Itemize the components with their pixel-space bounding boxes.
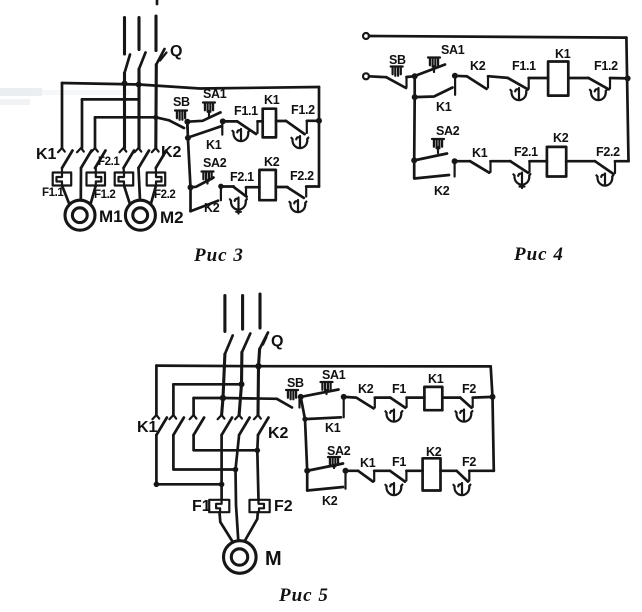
wire phase L1 top (Fig3) [123, 18, 126, 55]
wire phase L3 top (Fig3) [154, 16, 157, 51]
wire F1.1 to motor M1 (Fig3) [62, 186, 70, 205]
switch Q blade pole2 (Fig5) [242, 334, 250, 353]
wire K2 to F1.1 (Fig4) [488, 76, 508, 78]
anchor F1 rung2 (Fig5) [385, 483, 402, 495]
wire F2.2 to rail (Fig3) [306, 185, 319, 188]
terminal bottom (Fig4) [363, 73, 369, 79]
wire phase L1 top (Fig5) [223, 296, 226, 332]
motor M2 (Fig3) [125, 200, 155, 230]
svg-text:F2.2: F2.2 [154, 189, 175, 201]
wire right rail (Fig3) [318, 87, 321, 187]
node bus3-L1 (Fig5) [220, 395, 226, 401]
wire right rail (Fig5) [491, 366, 494, 470]
wire node1-node2 (Fig3) [186, 122, 189, 138]
wire coil to F1.2 (Fig3) [276, 120, 286, 123]
wire F2 to rail (Fig5) [473, 396, 493, 399]
NC contact K2 (Fig4) [455, 74, 467, 77]
anchor F1 rung1 (Fig5) [385, 410, 402, 422]
node bus2-L2 (Fig5) [239, 381, 245, 387]
wire bus 3 control feed (Fig5) [194, 397, 277, 400]
coil K2 (Fig4) [547, 147, 566, 177]
svg-text:SB: SB [389, 53, 406, 67]
switch Q blade pole3 (Fig5) [260, 333, 268, 350]
contactor contact K1.1 (Fig3) [58, 148, 73, 168]
thermal element F2.1 (Fig3) [122, 168, 125, 173]
svg-text:SA2: SA2 [436, 124, 460, 138]
node 5 (Fig3) [218, 184, 223, 189]
wire SB to node1 (Fig4) [407, 75, 415, 79]
NC contact K1 (Fig4) [455, 160, 470, 163]
wire node1 down (Fig4) [413, 76, 416, 97]
svg-text:SA1: SA1 [322, 368, 346, 382]
svg-text:SA2: SA2 [327, 444, 351, 458]
svg-text:F1.1: F1.1 [234, 104, 258, 118]
contactor contact K2.3 (Fig5) [254, 415, 269, 435]
svg-text:SA1: SA1 [441, 43, 465, 57]
svg-text:K1: K1 [472, 146, 488, 160]
wire K2.3 out (Fig5) [257, 435, 258, 500]
svg-text:K2: K2 [358, 382, 374, 396]
node bus-L1 (Fig3) [122, 81, 128, 87]
svg-text:SB: SB [287, 376, 304, 390]
wire F1.2 to motor M1 (Fig3) [91, 186, 96, 205]
node bus1-L3 (Fig5) [255, 363, 261, 369]
thermal contact F1 rung2 (Fig5) [390, 471, 405, 482]
wire coil to F1.2 (Fig4) [568, 77, 588, 80]
svg-text:Рис 4: Рис 4 [513, 244, 564, 265]
wire F2.2 to rail (Fig4) [615, 160, 629, 163]
svg-text:K1: K1 [436, 100, 452, 114]
wire phase L2 top (Fig5) [241, 296, 244, 330]
wire node1 down (Fig5) [305, 419, 307, 490]
svg-text:F2.1: F2.1 [98, 156, 120, 168]
contactor contact K1.2 (Fig3) [77, 148, 92, 168]
wire top rail (Fig4) [369, 36, 626, 38]
wire bus 2 (Fig3) [82, 98, 139, 101]
pushbutton SB (Fig5) [286, 390, 298, 399]
wire F1 to motor (Fig5) [220, 512, 233, 542]
svg-text:K2: K2 [553, 131, 569, 145]
svg-text:F1.1: F1.1 [512, 59, 536, 73]
switch Q handle tick (Fig3) [160, 53, 167, 61]
svg-text:K1: K1 [264, 93, 280, 107]
node 1 (Fig5) [298, 394, 304, 400]
wire K1 to F1 (Fig5) [374, 469, 390, 472]
node 2 (Fig5) [341, 394, 347, 400]
anchor F1.1 (Fig3) [232, 129, 249, 141]
wire left drop 2 (Fig5) [172, 384, 175, 415]
wire coil to F2 (Fig5) [442, 396, 460, 399]
svg-text:K2: K2 [322, 494, 338, 508]
node 4 (Fig3) [188, 184, 194, 190]
thermal contact F2.2 (Fig4) [595, 161, 614, 174]
wire left drop 1 (Fig3) [61, 83, 64, 148]
wire bus 2 (Fig5) [173, 383, 241, 386]
svg-text:F1.2: F1.2 [94, 189, 115, 201]
NC contact K2 (Fig5) [344, 397, 374, 409]
thermal contact F1.2 (Fig4) [589, 78, 609, 89]
svg-text:K1: K1 [36, 146, 57, 163]
node 1 (Fig4) [412, 73, 418, 79]
node rail rung1 (Fig5) [490, 394, 496, 400]
switch SA1 (Fig5) [321, 382, 333, 391]
svg-text:Q: Q [170, 43, 182, 60]
svg-text:F1.2: F1.2 [291, 103, 315, 117]
wire coil to F2 rung2 (Fig5) [441, 469, 457, 472]
thermal contact F1.1 control (Fig3) [223, 120, 237, 123]
wire right rail (Fig4) [626, 38, 628, 162]
coil K1 (Fig4) [548, 62, 568, 96]
contactor contact K2.3 (Fig3) [152, 148, 167, 168]
anchor F1.1 (Fig4) [510, 88, 527, 100]
wire phase L2 lower (Fig5) [239, 352, 242, 415]
svg-text:K2: K2 [264, 155, 280, 169]
node 4 (Fig5) [343, 468, 349, 474]
thermal element F2 (Fig5) [250, 500, 270, 512]
switch Q handle tick (Fig5) [263, 337, 267, 345]
thermal element F1 (Fig5) [209, 500, 229, 512]
wire K1.3 out (Fig5) [194, 435, 258, 450]
node bus-L2 (Fig3) [136, 82, 142, 88]
anchor F2.2 (Fig4) [596, 174, 613, 186]
svg-text:M: M [265, 548, 282, 570]
switch SA2 (Fig5) [328, 457, 340, 466]
aux contact K1 (Fig3) [190, 126, 221, 137]
aux contact K2 (Fig4) [414, 160, 449, 178]
coil K1 (Fig5) [424, 387, 442, 410]
node 3 (Fig3) [220, 118, 226, 124]
aux contact K2 (Fig5) [307, 487, 343, 491]
svg-text:F2: F2 [274, 498, 293, 515]
wire F1.1 to coil (Fig4) [529, 77, 548, 80]
anchor F2.1 with reset (Fig4) [513, 173, 530, 185]
wire phase L2 top (Fig3) [137, 18, 140, 50]
anchor F2.2 (Fig3) [289, 200, 306, 212]
node out3 (Fig5) [254, 448, 260, 454]
wire coil to F2.2 (Fig4) [566, 160, 595, 163]
wire F1 to coil (Fig5) [407, 396, 425, 399]
switch SA1 (Fig4) [428, 58, 440, 67]
wire bus 3 control feed (Fig3) [95, 117, 169, 120]
wire F1 to coil K2 (Fig5) [406, 469, 422, 472]
thermal contact F1.1 (Fig4) [508, 78, 528, 89]
anchor F2.1 with reset (Fig3) [230, 198, 247, 210]
wire F2 to rail rung2 (Fig5) [469, 469, 494, 472]
svg-text:SB: SB [173, 95, 190, 109]
coil K1 (Fig3) [263, 109, 276, 138]
thermal element F1.1 (Fig3) [61, 168, 63, 173]
svg-text:K2: K2 [426, 445, 442, 459]
anchor F1.2 (Fig3) [291, 136, 308, 148]
switch Q blade pole1 (Fig3) [125, 55, 131, 74]
switch SA2 (Fig4) [432, 139, 444, 148]
thermal contact F2 rung2 (Fig5) [457, 471, 468, 482]
node 3 (Fig5) [304, 468, 310, 474]
svg-text:Q: Q [271, 333, 283, 350]
wire to coil K2 (Fig3) [246, 186, 259, 189]
switch Q blade pole1 (Fig5) [225, 336, 233, 355]
svg-text:F2.2: F2.2 [290, 169, 314, 183]
contactor contact K1.3 (Fig5) [190, 415, 205, 435]
svg-text:M2: M2 [160, 208, 184, 227]
node out1b (Fig5) [219, 482, 225, 488]
svg-text:F1: F1 [192, 498, 211, 515]
node 4 (Fig4) [411, 157, 417, 163]
wire mid phase to M2 (Fig3) [139, 168, 141, 200]
wire to coil K1 (Fig3) [258, 120, 263, 123]
wire K2.2 out (Fig5) [236, 435, 240, 541]
wire bus phase top (Fig3) [62, 83, 319, 89]
svg-text:F2: F2 [462, 382, 476, 396]
wire K1.2 out (Fig5) [173, 435, 235, 470]
scan artifact streaks (decorative) [0, 88, 42, 96]
svg-text:F2.1: F2.1 [230, 170, 254, 184]
svg-text:M1: M1 [99, 207, 123, 226]
thermal contact F2 (Fig5) [460, 398, 471, 408]
svg-text:SA2: SA2 [203, 156, 227, 170]
NC contact K1 (Fig5) [346, 469, 359, 472]
wire node3 down (Fig4) [413, 97, 416, 160]
aux contact K1 (Fig4) [415, 88, 453, 98]
svg-text:K2: K2 [268, 425, 289, 442]
thermal element F1.2 (Fig3) [95, 168, 97, 173]
wire mid phase to M1 (Fig3) [79, 168, 82, 200]
svg-text:Рис 3: Рис 3 [193, 245, 244, 266]
node 3 (Fig4) [412, 94, 418, 100]
svg-text:K1: K1 [555, 47, 571, 61]
thermal contact F2.1 (Fig4) [510, 161, 528, 173]
wire phase L1 lower (Fig5) [222, 354, 225, 415]
anchor F1.2 (Fig4) [590, 88, 607, 100]
svg-text:Рис 5: Рис 5 [278, 585, 329, 606]
wire K2 to F1 (Fig5) [375, 396, 391, 399]
thermal contact F1.2 control (Fig3) [286, 121, 305, 134]
thermal element F2.2 (Fig3) [155, 168, 157, 173]
svg-text:SA1: SA1 [203, 87, 227, 101]
node rail rung1 (Fig3) [316, 118, 322, 124]
node 5 (Fig4) [452, 158, 458, 164]
wire phase L3 lower (Fig5) [258, 349, 260, 415]
thermal contact F1 (Fig5) [390, 398, 405, 408]
svg-text:K2: K2 [161, 144, 182, 161]
node K1-aux branch (Fig5) [302, 417, 307, 422]
wire phase L3 top (Fig5) [258, 294, 261, 328]
motor M1 (Fig3) [65, 200, 95, 230]
wire node2 down (Fig3) [188, 138, 191, 211]
node out2 (Fig5) [233, 467, 239, 473]
coil K2 (Fig5) [423, 458, 441, 490]
motor M (Fig5) [224, 541, 257, 574]
thermal contact F2.2 control (Fig3) [288, 187, 304, 198]
svg-text:K2: K2 [434, 184, 450, 198]
node out1a (Fig5) [154, 482, 160, 488]
anchor F2 rung2 (Fig5) [453, 483, 470, 495]
wire phase L1 lower (Fig3) [123, 73, 126, 148]
wire F1.2 to rail (Fig4) [610, 77, 628, 80]
pushbutton SB (Fig3) [175, 111, 187, 120]
svg-text:F2: F2 [462, 455, 476, 469]
wire K1.1 out (Fig5) [156, 435, 221, 484]
switch SA1 (Fig3) [203, 103, 215, 112]
wire F2.1 to coil (Fig4) [530, 160, 547, 163]
node 2 (Fig3) [185, 135, 191, 141]
svg-text:F1.2: F1.2 [594, 59, 618, 73]
contactor contact K1.1 (Fig5) [152, 415, 167, 435]
aux contact K1 (Fig5) [301, 397, 341, 419]
svg-text:K1: K1 [137, 419, 158, 436]
svg-text:F2.2: F2.2 [596, 145, 620, 159]
contactor contact K2.2 (Fig3) [135, 148, 150, 168]
contactor contact K2.1 (Fig5) [218, 415, 233, 435]
svg-text:F2.1: F2.1 [514, 145, 538, 159]
aux contact K2 (Fig3) [191, 201, 219, 212]
wire K1 to F2.1 (Fig4) [491, 160, 511, 163]
wire K2.1 out (Fig5) [220, 435, 223, 500]
node 1 (Fig3) [184, 119, 190, 125]
svg-text:F1: F1 [392, 382, 406, 396]
wire bus 1 (Fig5) [156, 364, 490, 367]
wire left drop 3 (Fig3) [94, 117, 97, 148]
contactor contact K1.2 (Fig5) [169, 415, 184, 435]
switch Q blade pole2 (Fig3) [139, 53, 146, 70]
wire phase L2 lower (Fig3) [137, 69, 140, 148]
wire F2 to motor (Fig5) [245, 512, 258, 541]
svg-text:F1.1: F1.1 [42, 187, 64, 199]
wire coil to F2.2 (Fig3) [276, 186, 288, 189]
coil K2 (Fig3) [259, 170, 275, 200]
node bus3-L3 (Fig3) [153, 115, 158, 120]
contactor contact K2.1 (Fig3) [120, 148, 135, 168]
anchor F2 rung1 (Fig5) [455, 410, 472, 422]
wire F2.1 to motor M2 (Fig3) [124, 186, 130, 205]
svg-text:K1: K1 [206, 138, 222, 152]
wire phase L3 lower (Fig3) [154, 65, 158, 149]
wire F1.2 to rail (Fig3) [307, 119, 319, 122]
pushbutton SB (Fig4) [369, 75, 386, 79]
svg-text:K2: K2 [204, 201, 220, 215]
wire F2.2 to motor M2 (Fig3) [151, 186, 156, 205]
node rail rung1 (Fig4) [625, 75, 631, 81]
node 2 (Fig4) [452, 73, 458, 79]
svg-text:F1: F1 [392, 455, 406, 469]
contactor contact K2.2 (Fig5) [235, 415, 250, 435]
terminal top (Fig4) [363, 33, 369, 39]
thermal contact F2.1 control (Fig3) [221, 185, 234, 188]
svg-text:K1: K1 [428, 372, 444, 386]
contactor contact K1.3 (Fig3) [91, 148, 106, 168]
svg-text:K1: K1 [360, 456, 376, 470]
stray mark top edge [156, 0, 159, 4]
switch Q blade pole3 (Fig3) [156, 49, 164, 65]
svg-text:K2: K2 [470, 59, 486, 73]
wire left drop 1 (Fig5) [155, 366, 158, 415]
wire left drop 3 (Fig5) [192, 398, 195, 415]
switch SA2 (Fig3) [202, 172, 214, 181]
svg-text:K1: K1 [325, 421, 341, 435]
wire left drop 2 (Fig3) [81, 99, 84, 148]
